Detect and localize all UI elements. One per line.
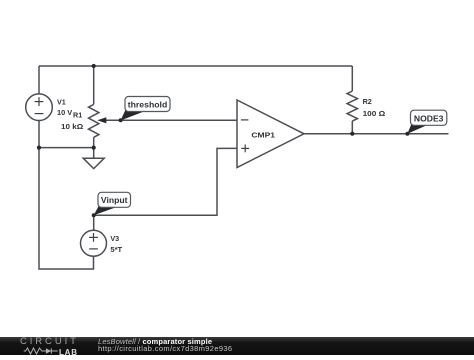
voltage source V1 circle xyxy=(26,94,53,121)
V3 plus sign xyxy=(89,233,98,242)
wire R2 bottom lead xyxy=(351,121,353,134)
svg-text:5*T: 5*T xyxy=(110,245,122,254)
node threshold flag box xyxy=(125,97,170,112)
junction dot R1 top xyxy=(92,64,96,68)
node NODE3 flag box xyxy=(411,110,447,125)
op-amp inverting input minus sign xyxy=(241,119,249,121)
wire op-amp noninverting input from V3 xyxy=(94,148,237,215)
node Vinput flag pointer xyxy=(94,205,116,216)
wire V1 top lead xyxy=(38,66,40,94)
svg-text:CMP1: CMP1 xyxy=(251,130,275,139)
wire R1 top lead xyxy=(93,66,95,104)
junction dot left rail xyxy=(37,146,41,150)
node threshold attach dot xyxy=(119,118,123,122)
voltage source V3 circle xyxy=(81,230,107,256)
V1 minus sign xyxy=(35,113,44,115)
node Vinput attach dot xyxy=(92,213,96,217)
svg-text:10 kΩ: 10 kΩ xyxy=(61,122,83,131)
resistor R2 zigzag xyxy=(347,91,357,121)
V1 plus sign xyxy=(35,97,44,106)
svg-text:V3: V3 xyxy=(110,234,119,243)
svg-text:NODE3: NODE3 xyxy=(414,114,444,123)
wire bottom rail V1 to R1 xyxy=(39,147,94,149)
node NODE3 attach dot xyxy=(405,132,409,136)
wire V1 bottom lead xyxy=(38,121,40,148)
op-amp CMP1 triangle xyxy=(237,100,304,168)
junction dot R1 bottom / ground xyxy=(92,146,96,150)
wire R1 bottom lead xyxy=(93,137,95,147)
junction dot R2 output xyxy=(350,132,354,136)
node NODE3 flag pointer xyxy=(407,123,428,134)
CircuitLab logo xyxy=(20,338,82,355)
wire left drop to V3 loop xyxy=(39,148,94,269)
footer text xyxy=(98,338,232,353)
resistor R1 potentiometer zigzag xyxy=(89,104,99,137)
wire R2 top lead xyxy=(351,66,353,91)
op-amp noninverting input plus sign xyxy=(241,145,249,153)
svg-text:threshold: threshold xyxy=(128,100,168,109)
node threshold flag pointer xyxy=(121,108,144,121)
potentiometer wiper arrowhead xyxy=(97,117,106,123)
wire top rail xyxy=(39,65,352,67)
svg-text:R2: R2 xyxy=(363,97,372,106)
wire op-amp output to NODE3 xyxy=(304,133,449,135)
svg-text:R1: R1 xyxy=(73,110,82,119)
ground symbol xyxy=(83,148,104,169)
V3 minus sign xyxy=(89,248,98,250)
wire V3 top lead xyxy=(93,215,95,230)
svg-text:100 Ω: 100 Ω xyxy=(363,109,386,118)
wire wiper to op-amp inverting input xyxy=(104,119,237,121)
svg-text:V1: V1 xyxy=(57,97,66,106)
svg-text:10 V: 10 V xyxy=(57,108,72,117)
node Vinput flag box xyxy=(98,192,131,207)
footer bar xyxy=(0,337,474,355)
svg-text:Vinput: Vinput xyxy=(101,196,128,205)
